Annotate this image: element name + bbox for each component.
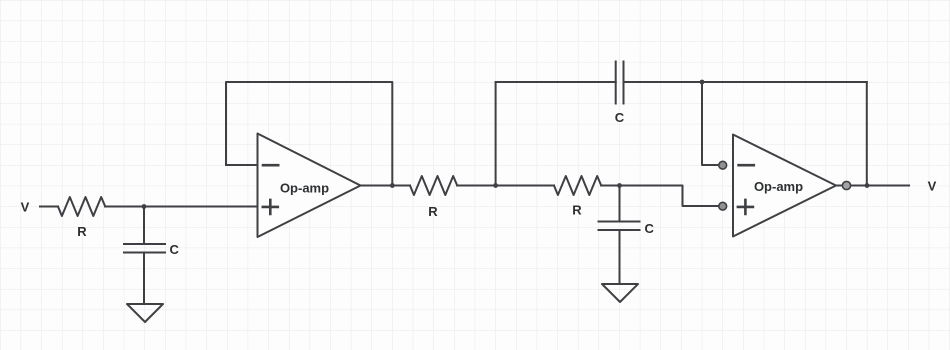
svg-text:Op-amp: Op-amp [754,179,803,194]
op-amp U2 plus symbol [738,200,753,214]
svg-text:R: R [77,224,87,239]
wire feedback top right [624,81,867,83]
wire C2 to ground [619,230,621,284]
port U2 plus input [719,202,727,210]
op-amp U2 [733,135,836,237]
capacitor C1 [124,243,165,245]
node C junction dot [493,183,498,188]
node Vin label [21,199,30,214]
op-amp U2 minus symbol [739,164,754,167]
op-amp U1 plus symbol [263,200,278,214]
ground GND2 [602,284,638,302]
capacitor C3 [615,62,617,104]
node F junction dot [865,183,870,188]
op-amp U1 label [280,180,329,195]
wire node D down to U2 minus input [702,82,723,165]
wire R2 to R3 [457,185,554,187]
ground GND1 [127,304,163,322]
node Vout label [928,178,937,193]
label R1 [77,224,87,239]
label C3 [615,110,625,125]
svg-text:V: V [21,199,30,214]
wire R1 to op-amp U1 plus input [105,206,257,208]
op-amp U2 label [754,179,803,194]
node B junction dot [390,183,395,188]
wire node A down to C1 [143,207,145,245]
label R3 [572,202,582,217]
port U2 minus input [719,161,727,169]
label C1 [170,242,180,257]
wire Vin to R1 [40,206,58,208]
resistor R1 [58,197,105,216]
op-amp U1 minus symbol [263,164,278,167]
wire C1 to ground [143,253,145,305]
node E junction dot [617,183,622,188]
resistor R3 [554,176,601,195]
wire node C up to feedback [495,82,497,186]
wire feedback top left [496,81,616,83]
wire R3 to node E [601,185,619,187]
wire feedback right down to output [866,82,868,186]
wire U2 output [836,185,909,187]
capacitor C2 [599,221,640,223]
wire U1 feedback loop [226,82,392,186]
label R2 [428,204,438,219]
port U2 output [842,181,850,189]
svg-text:C: C [170,242,180,257]
svg-text:Op-amp: Op-amp [280,180,329,195]
svg-text:R: R [572,202,582,217]
wire U1 minus input [226,164,258,166]
wire node E down to C2 [619,186,621,222]
svg-text:C: C [645,221,655,236]
op-amp U1 [258,134,361,238]
resistor R2 [410,176,457,195]
wire node E to U2 plus input [620,186,723,207]
svg-text:R: R [428,204,438,219]
svg-text:V: V [928,178,937,193]
svg-text:C: C [615,110,625,125]
node A junction dot [142,204,147,209]
wire U1 output [361,185,411,187]
node D junction dot [700,80,705,85]
label C2 [645,221,655,236]
